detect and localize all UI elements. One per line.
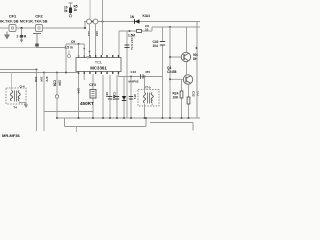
wire: left bus y=69.5	[0, 69, 37, 71]
wire: left horizontal y=47.5	[0, 47, 36, 49]
transformer T2 in dashed shield	[138, 77, 159, 119]
svg-text:472: 472	[45, 77, 49, 82]
svg-text:104: 104	[40, 77, 44, 82]
wire: IC pin1 drop	[78, 74, 80, 118]
capacitor on x=110	[108, 75, 116, 118]
svg-text:TCL: TCL	[95, 60, 103, 65]
wire: bottom return y=126.5	[65, 118, 147, 127]
component cluster on x=57 drop	[53, 73, 62, 119]
svg-text:C58: C58	[53, 80, 57, 86]
node end of input line	[84, 27, 86, 29]
ground under CF1	[5, 32, 9, 39]
svg-text:MR-MF36: MR-MF36	[2, 133, 21, 137]
transformer T1 in dashed shield	[6, 73, 26, 110]
wire: right edge vertical	[196, 22, 198, 119]
wire: IC pin2 stub	[83, 74, 85, 80]
wire: mid drop x=103	[102, 75, 104, 118]
svg-text:470: 470	[145, 70, 150, 74]
svg-text:CF3: CF3	[89, 83, 96, 87]
wire: long riser x=102.5 from top edge to IC	[102, 0, 104, 55]
transistor Q2	[183, 75, 192, 84]
wire: left bus y=72.5	[0, 72, 79, 74]
node pin risers	[78, 43, 80, 45]
inductor L2 bead	[93, 19, 98, 24]
node x145	[145, 117, 147, 119]
node T2 feed	[144, 76, 146, 78]
diode D2 on x=124	[122, 77, 126, 119]
inductor L1 bead	[87, 19, 92, 24]
node base Q2 corner	[169, 78, 171, 80]
capacitor C16 on feed wire	[141, 74, 143, 79]
svg-text:KIA4: KIA4	[143, 14, 150, 18]
node feed Q1	[169, 26, 171, 28]
svg-text:T4: T4	[13, 106, 17, 110]
transistor Q1	[181, 52, 190, 61]
wire: stub below return	[76, 127, 78, 133]
wire: Q1 collector up / emitter down to Q2	[186, 27, 188, 75]
capacitor C2 to ground	[17, 28, 28, 43]
svg-text:CF1: CF1	[9, 14, 17, 19]
wire: riser bead1 to IC pin	[89, 24, 91, 57]
capacitor on x=131	[129, 77, 137, 119]
svg-text:10K: 10K	[173, 96, 180, 100]
node between beads	[91, 21, 93, 23]
wire: jog under IC right, long feed to T2/cap	[118, 74, 162, 77]
svg-text:104: 104	[57, 80, 61, 86]
svg-text:1N: 1N	[130, 15, 135, 19]
node base Q1	[169, 56, 171, 58]
svg-text:MC3361: MC3361	[90, 66, 107, 71]
nodes on bottom bus	[92, 117, 190, 119]
node pin1 on bottom bus	[78, 117, 80, 119]
wire: top supply rail y=21.5	[84, 21, 200, 23]
wire: input line y=28	[0, 27, 85, 29]
svg-text:C16: C16	[131, 70, 137, 74]
svg-text:MHP02: MHP02	[129, 80, 139, 84]
capacitor C10 on x=127 drop	[125, 31, 134, 118]
ground for T1	[24, 103, 28, 109]
wire: riser from rail to input line	[84, 22, 86, 29]
wire: riser bead2 to IC pin	[95, 24, 97, 57]
wire: lower right return y=122.5	[150, 123, 193, 131]
resistor R26 on Q2 emitter	[187, 84, 199, 118]
node: junction on input line	[20, 27, 22, 29]
resistor R1 at top with leads	[64, 3, 78, 17]
node x=131 on feed wire	[130, 76, 132, 78]
capacitor on x=117	[113, 75, 120, 118]
resistor R8 on second rail	[137, 30, 142, 33]
svg-text:2: 2	[17, 34, 19, 38]
node on second rail	[129, 30, 131, 32]
capacitor on x=44 drop	[43, 73, 45, 132]
ceramic filter CF2	[36, 25, 43, 32]
svg-text:102: 102	[87, 31, 91, 36]
svg-text:C2458: C2458	[167, 70, 177, 74]
svg-text:1k: 1k	[74, 8, 78, 12]
svg-text:10K: 10K	[34, 77, 38, 83]
svg-text:0k: 0k	[64, 9, 68, 13]
trimmer capacitor stub	[68, 51, 71, 58]
wire: second rail y=31 with jog to y=27	[119, 27, 200, 31]
svg-text:C9: C9	[71, 40, 75, 44]
svg-text:104: 104	[77, 88, 81, 93]
svg-text:471: 471	[133, 94, 137, 99]
svg-text:450RT: 450RT	[80, 101, 94, 106]
svg-text:KT-5: KT-5	[144, 86, 151, 90]
wire: riser x=119 to IC	[118, 31, 120, 57]
node (44,72.5)	[43, 72, 45, 74]
svg-text:C30: C30	[113, 92, 117, 98]
resistor R7 on x=36.5 drop	[34, 70, 44, 132]
wire: faint top riser	[89, 0, 91, 19]
svg-text:CF2: CF2	[35, 14, 43, 19]
capacitor C40 on x=162.5 drop	[153, 27, 166, 118]
svg-text:104: 104	[153, 44, 159, 48]
svg-text:Q-4: Q-4	[19, 85, 24, 89]
svg-text:IR.TKF.SB MCF1R.TKF.SB: IR.TKF.SB MCF1R.TKF.SB	[0, 20, 48, 24]
small ground near pins	[86, 56, 90, 60]
node x57 on bus	[56, 117, 58, 119]
wire: riser pin15	[83, 44, 85, 57]
node (57,72.5)	[56, 72, 58, 74]
IC U1 MC3361	[76, 55, 121, 74]
svg-text:C17 4.7u: C17 4.7u	[130, 38, 134, 51]
node (66,72.5)	[65, 72, 67, 74]
wire: bottom bus y=118	[57, 117, 200, 119]
wire: lower bus y=111.5	[44, 111, 93, 113]
wire: riser pin16	[78, 44, 80, 57]
svg-text:10: 10	[145, 28, 149, 32]
diode D1 on rail	[135, 19, 140, 23]
wire: y=44 line to IC top pins	[66, 43, 84, 45]
node on right edge	[196, 47, 198, 49]
resistor R24 from base to bus	[173, 79, 183, 118]
node (36.5,69.5)	[36, 69, 38, 71]
capacitor C4 to lower wire	[33, 34, 41, 48]
node on rail x=102.5	[101, 20, 103, 22]
ceramic filter CF1	[9, 25, 16, 32]
wire: base feed Q1/Q2	[170, 27, 183, 118]
ceramic filter CF3	[90, 74, 96, 118]
wire: vertical x=66	[65, 44, 67, 73]
node riser joints	[83, 48, 85, 50]
svg-text:C32: C32	[192, 91, 196, 97]
